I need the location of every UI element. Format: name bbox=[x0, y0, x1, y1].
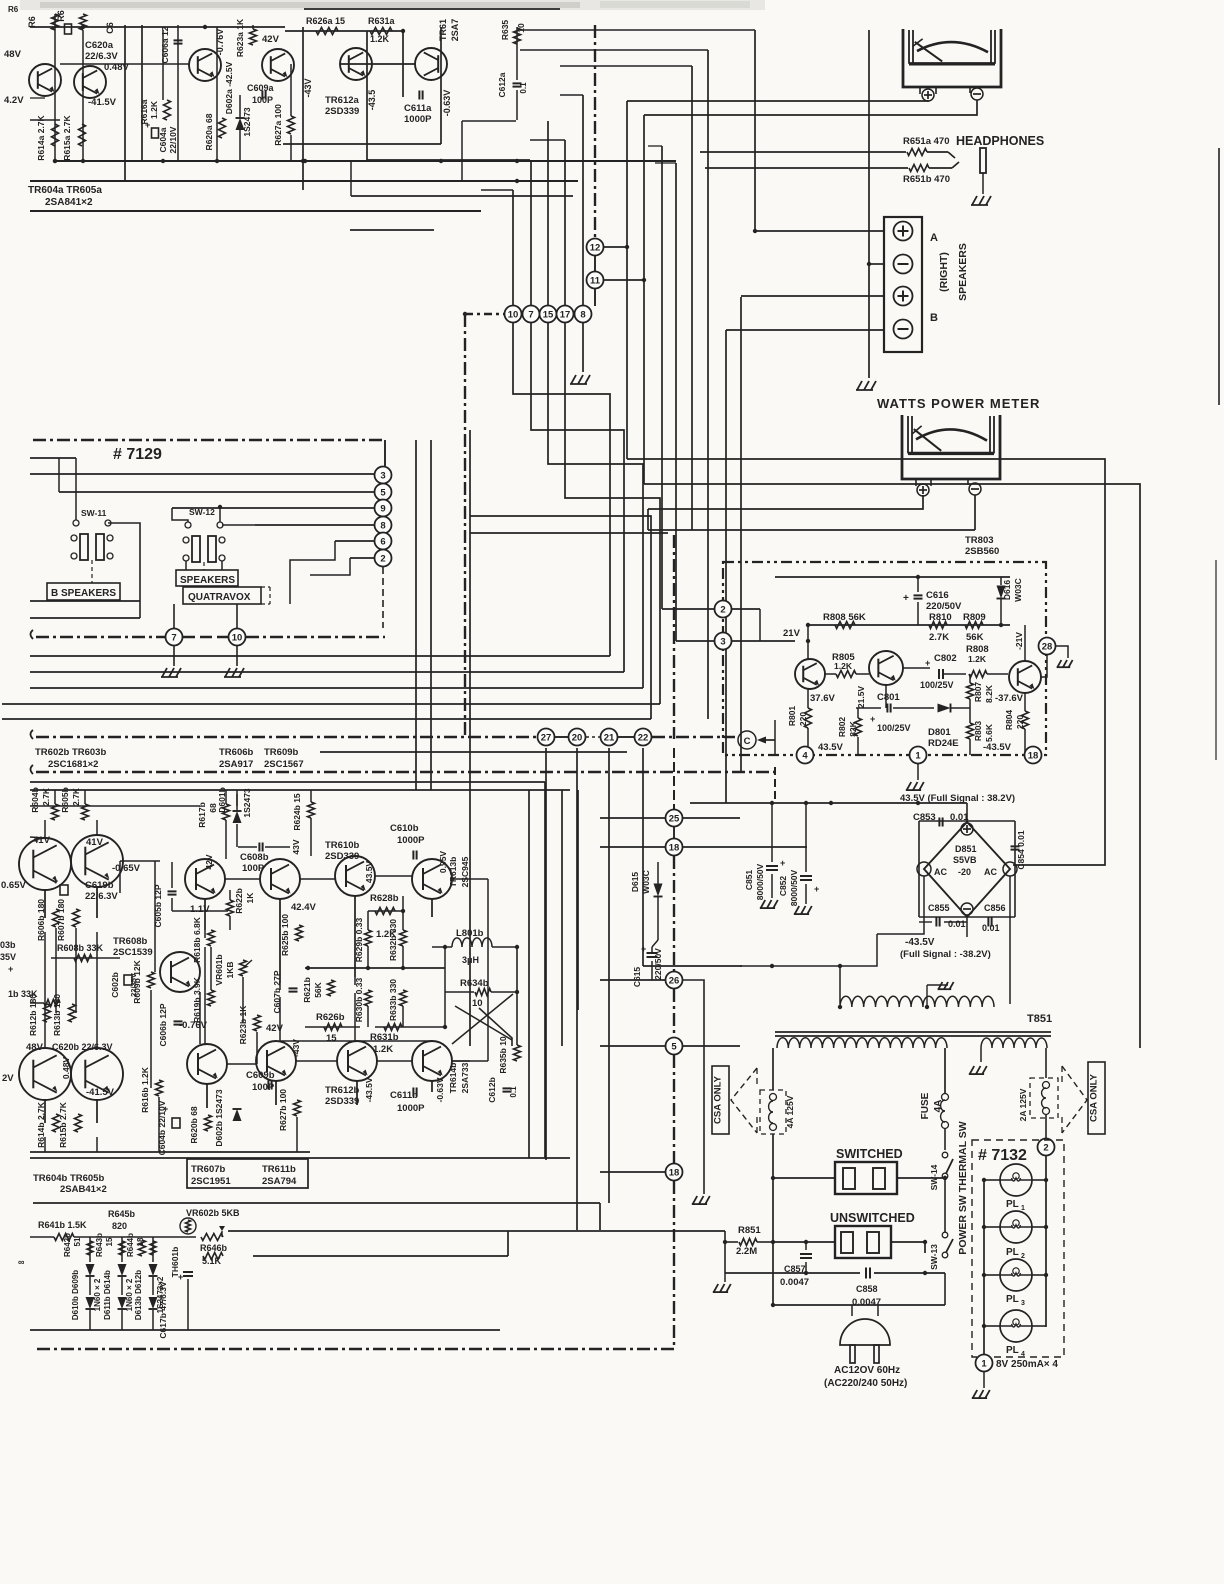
svg-text:C611a: C611a bbox=[404, 103, 432, 114]
svg-text:R620b 68: R620b 68 bbox=[189, 1106, 199, 1144]
svg-text:1S2473: 1S2473 bbox=[242, 788, 252, 818]
svg-text:C856: C856 bbox=[984, 903, 1006, 913]
svg-text:27: 27 bbox=[541, 732, 552, 743]
svg-text:W03C: W03C bbox=[641, 870, 651, 894]
svg-text:2: 2 bbox=[380, 553, 385, 564]
svg-text:43.5V: 43.5V bbox=[818, 742, 843, 753]
svg-text:2SD339: 2SD339 bbox=[325, 1096, 359, 1107]
svg-text:L801b: L801b bbox=[456, 928, 484, 939]
svg-text:22/10V: 22/10V bbox=[168, 126, 178, 153]
svg-text:R605b: R605b bbox=[60, 787, 70, 813]
svg-text:15: 15 bbox=[543, 309, 554, 320]
svg-text:0.1: 0.1 bbox=[519, 82, 528, 94]
svg-text:8000/50V: 8000/50V bbox=[755, 863, 765, 900]
svg-text:R609b 12K: R609b 12K bbox=[132, 959, 142, 1003]
svg-text:1.1V: 1.1V bbox=[190, 904, 210, 915]
svg-text:+: + bbox=[163, 1104, 168, 1114]
svg-text:C801: C801 bbox=[877, 692, 900, 703]
svg-text:PL: PL bbox=[1006, 1345, 1019, 1356]
svg-text:+: + bbox=[903, 593, 909, 604]
svg-text:+: + bbox=[814, 884, 819, 894]
svg-text:B: B bbox=[930, 312, 938, 324]
svg-text:+: + bbox=[641, 944, 646, 954]
svg-text:R612b 180: R612b 180 bbox=[28, 994, 38, 1036]
svg-text:TR609b: TR609b bbox=[264, 747, 299, 758]
svg-text:C609a: C609a bbox=[247, 83, 275, 93]
svg-text:C620b 22/6.3V: C620b 22/6.3V bbox=[52, 1042, 113, 1052]
svg-text:C612a: C612a bbox=[497, 72, 507, 97]
svg-text:PL: PL bbox=[1006, 1294, 1019, 1305]
svg-text:R804: R804 bbox=[1004, 710, 1014, 731]
svg-text:W03C: W03C bbox=[1013, 578, 1023, 602]
svg-text:1.2K: 1.2K bbox=[370, 34, 390, 44]
svg-text:8: 8 bbox=[380, 520, 385, 531]
svg-text:2.7K: 2.7K bbox=[929, 632, 949, 643]
svg-text:-43.5: -43.5 bbox=[367, 90, 377, 111]
svg-text:-21V: -21V bbox=[1014, 632, 1024, 650]
svg-text:R6: R6 bbox=[27, 16, 37, 28]
svg-text:B SPEAKERS: B SPEAKERS bbox=[51, 588, 116, 599]
svg-text:R626b: R626b bbox=[316, 1012, 345, 1023]
svg-text:D616: D616 bbox=[1002, 580, 1012, 601]
svg-text:C615: C615 bbox=[632, 967, 642, 988]
svg-text:SW-12: SW-12 bbox=[189, 507, 215, 517]
svg-text:C: C bbox=[744, 736, 751, 747]
svg-text:0.65V: 0.65V bbox=[1, 880, 26, 891]
svg-text:1S2473×2: 1S2473×2 bbox=[156, 1276, 165, 1313]
svg-text:+: + bbox=[178, 1272, 183, 1282]
svg-text:(AC220/240 50Hz): (AC220/240 50Hz) bbox=[824, 1378, 907, 1389]
svg-text:220: 220 bbox=[798, 712, 808, 726]
svg-text:C852: C852 bbox=[778, 876, 788, 897]
svg-text:0.0047: 0.0047 bbox=[780, 1277, 809, 1288]
svg-text:R851: R851 bbox=[738, 1225, 761, 1236]
svg-text:-20: -20 bbox=[958, 867, 971, 877]
svg-text:TR612b: TR612b bbox=[325, 1085, 360, 1096]
svg-text:4A 125V: 4A 125V bbox=[785, 1095, 795, 1128]
svg-text:D801: D801 bbox=[928, 727, 951, 738]
svg-text:C854 0.01: C854 0.01 bbox=[1016, 830, 1026, 869]
svg-text:C604a: C604a bbox=[158, 127, 168, 152]
svg-text:UNSWITCHED: UNSWITCHED bbox=[830, 1211, 915, 1225]
svg-text:+: + bbox=[780, 858, 785, 868]
svg-text:2SD339: 2SD339 bbox=[325, 851, 359, 862]
svg-text:POWER SW THERMAL SW: POWER SW THERMAL SW bbox=[957, 1121, 969, 1254]
svg-text:R641b 1.5K: R641b 1.5K bbox=[38, 1220, 87, 1230]
svg-text:8000/50V: 8000/50V bbox=[789, 869, 799, 906]
svg-text:+: + bbox=[145, 120, 150, 130]
svg-text:R622b: R622b bbox=[234, 888, 244, 914]
svg-text:-41.5V: -41.5V bbox=[86, 1087, 115, 1098]
svg-text:42V: 42V bbox=[204, 854, 214, 869]
svg-text:C853: C853 bbox=[913, 812, 936, 823]
svg-text:TR613b: TR613b bbox=[448, 857, 458, 888]
svg-text:D613b D612b: D613b D612b bbox=[134, 1270, 143, 1320]
svg-text:4: 4 bbox=[802, 750, 808, 761]
svg-text:43.5V: 43.5V bbox=[364, 861, 374, 884]
svg-text:SWITCHED: SWITCHED bbox=[836, 1147, 903, 1161]
svg-text:43V: 43V bbox=[291, 839, 301, 854]
svg-text:R607b 180: R607b 180 bbox=[56, 899, 66, 941]
svg-text:2SA917: 2SA917 bbox=[219, 759, 253, 770]
svg-text:TR610b: TR610b bbox=[325, 840, 360, 851]
svg-text:12: 12 bbox=[590, 242, 601, 253]
svg-text:2SC1951: 2SC1951 bbox=[191, 1176, 231, 1187]
svg-text:R6: R6 bbox=[56, 10, 66, 22]
svg-text:82K: 82K bbox=[848, 720, 858, 736]
svg-text:C851: C851 bbox=[744, 870, 754, 891]
svg-text:1S2473: 1S2473 bbox=[242, 107, 252, 137]
svg-text:1000P: 1000P bbox=[404, 114, 432, 125]
svg-text:AC12OV 60Hz: AC12OV 60Hz bbox=[834, 1365, 900, 1376]
svg-text:1: 1 bbox=[1021, 1205, 1025, 1212]
svg-text:0.1: 0.1 bbox=[509, 1086, 518, 1098]
svg-text:2A 125V: 2A 125V bbox=[1018, 1088, 1028, 1121]
svg-text:2SA7: 2SA7 bbox=[450, 19, 460, 42]
svg-text:9: 9 bbox=[380, 503, 385, 514]
svg-text:WATTS POWER METER: WATTS POWER METER bbox=[877, 396, 1040, 411]
svg-text:R644b: R644b bbox=[126, 1233, 135, 1257]
svg-text:42.4V: 42.4V bbox=[291, 902, 316, 913]
svg-text:R625b 100: R625b 100 bbox=[280, 914, 290, 956]
svg-text:R808 56K: R808 56K bbox=[823, 612, 866, 623]
svg-text:2SB560: 2SB560 bbox=[965, 546, 999, 557]
svg-text:TR602b TR603b: TR602b TR603b bbox=[35, 747, 106, 758]
svg-text:1K: 1K bbox=[245, 892, 255, 904]
svg-text:100P: 100P bbox=[242, 863, 265, 874]
svg-text:37.6V: 37.6V bbox=[810, 693, 835, 704]
svg-text:TR61: TR61 bbox=[438, 19, 448, 41]
svg-text:TR614b: TR614b bbox=[448, 1063, 458, 1094]
svg-text:C606a 12: C606a 12 bbox=[160, 26, 170, 63]
svg-text:C609b: C609b bbox=[246, 1070, 275, 1081]
svg-text:21V: 21V bbox=[783, 628, 801, 639]
svg-text:R801: R801 bbox=[787, 706, 797, 727]
svg-text:2SAB41×2: 2SAB41×2 bbox=[60, 1184, 107, 1195]
svg-text:R615a 2.7K: R615a 2.7K bbox=[62, 114, 72, 160]
svg-text:R614a 2.7K: R614a 2.7K bbox=[36, 114, 46, 160]
svg-text:TR604a TR605a: TR604a TR605a bbox=[28, 185, 102, 196]
svg-text:TR803: TR803 bbox=[965, 535, 994, 546]
svg-text:48V: 48V bbox=[4, 49, 22, 60]
svg-text:RD24E: RD24E bbox=[928, 738, 959, 749]
svg-text:3: 3 bbox=[1021, 1300, 1025, 1307]
svg-text:+: + bbox=[925, 658, 930, 668]
svg-text:2.2M: 2.2M bbox=[736, 1246, 757, 1257]
svg-text:10: 10 bbox=[472, 998, 483, 1009]
svg-text:R635b 10: R635b 10 bbox=[498, 1036, 508, 1074]
svg-text:5: 5 bbox=[380, 487, 386, 498]
svg-text:3: 3 bbox=[720, 636, 725, 647]
svg-text:2SC1681×2: 2SC1681×2 bbox=[48, 759, 98, 770]
svg-text:-43.5V: -43.5V bbox=[905, 937, 935, 948]
svg-text:+: + bbox=[53, 876, 58, 886]
svg-text:1: 1 bbox=[981, 1358, 987, 1369]
svg-text:R627a 100: R627a 100 bbox=[273, 104, 283, 146]
svg-text:A: A bbox=[930, 232, 938, 244]
svg-text:C6: C6 bbox=[105, 22, 115, 34]
svg-text:0.01: 0.01 bbox=[982, 923, 1000, 933]
svg-text:28: 28 bbox=[1042, 641, 1053, 652]
svg-text:42V: 42V bbox=[262, 34, 280, 45]
svg-text:D611b D614b: D611b D614b bbox=[103, 1270, 112, 1320]
svg-text:C612b: C612b bbox=[487, 1077, 497, 1103]
svg-text:0.0047: 0.0047 bbox=[852, 1297, 881, 1308]
svg-text:1000P: 1000P bbox=[397, 1103, 425, 1114]
svg-text:FUSE: FUSE bbox=[920, 1092, 931, 1119]
svg-text:22: 22 bbox=[638, 732, 649, 743]
svg-text:3: 3 bbox=[380, 470, 385, 481]
svg-text:48V: 48V bbox=[26, 1042, 44, 1053]
svg-text:R604b: R604b bbox=[30, 787, 40, 813]
svg-text:R613b 180: R613b 180 bbox=[52, 994, 62, 1036]
svg-text:R643b: R643b bbox=[95, 1233, 104, 1257]
svg-text:SW-13: SW-13 bbox=[929, 1244, 939, 1270]
svg-text:220: 220 bbox=[1015, 715, 1025, 729]
svg-text:TR612a: TR612a bbox=[325, 95, 360, 106]
svg-text:R810: R810 bbox=[929, 612, 952, 623]
svg-text:T851: T851 bbox=[1027, 1013, 1052, 1025]
svg-text:51: 51 bbox=[73, 1237, 82, 1246]
svg-text:220/50V: 220/50V bbox=[653, 948, 663, 980]
svg-text:D615: D615 bbox=[630, 872, 640, 893]
svg-text:+: + bbox=[870, 714, 875, 724]
svg-text:∞: ∞ bbox=[18, 1257, 25, 1267]
svg-text:2SA733: 2SA733 bbox=[460, 1062, 470, 1093]
svg-text:7: 7 bbox=[171, 632, 176, 643]
svg-text:R802: R802 bbox=[837, 717, 847, 738]
svg-text:41V: 41V bbox=[33, 835, 51, 846]
svg-text:-41.5V: -41.5V bbox=[88, 97, 117, 108]
svg-text:1.2K: 1.2K bbox=[149, 100, 159, 119]
svg-text:TR607b: TR607b bbox=[191, 1164, 226, 1175]
svg-text:TR611b: TR611b bbox=[262, 1164, 296, 1175]
svg-text:PL: PL bbox=[1006, 1199, 1019, 1210]
svg-text:R623a 1K: R623a 1K bbox=[235, 18, 245, 57]
svg-text:18: 18 bbox=[1028, 750, 1039, 761]
svg-text:17: 17 bbox=[560, 309, 571, 320]
svg-text:R620a 68: R620a 68 bbox=[204, 113, 214, 150]
svg-text:R635: R635 bbox=[500, 20, 510, 41]
svg-text:2SC1539: 2SC1539 bbox=[113, 947, 153, 958]
svg-text:2SA794: 2SA794 bbox=[262, 1176, 297, 1187]
svg-text:C620a: C620a bbox=[85, 40, 114, 51]
svg-text:R631a: R631a bbox=[368, 16, 396, 26]
svg-text:1KB: 1KB bbox=[225, 961, 235, 978]
svg-text:8.2K: 8.2K bbox=[984, 684, 994, 703]
svg-text:C619b: C619b bbox=[85, 880, 114, 891]
svg-text:C602b: C602b bbox=[110, 972, 120, 998]
svg-text:-0.65V: -0.65V bbox=[112, 863, 141, 874]
svg-text:# 7132: # 7132 bbox=[978, 1147, 1027, 1164]
svg-text:5: 5 bbox=[671, 1041, 677, 1052]
svg-text:18: 18 bbox=[136, 1237, 145, 1246]
svg-text:100/25V: 100/25V bbox=[920, 680, 954, 690]
svg-text:# 7129: # 7129 bbox=[113, 446, 162, 463]
svg-text:R803: R803 bbox=[973, 721, 983, 742]
svg-text:8: 8 bbox=[580, 309, 585, 320]
svg-text:1: 1 bbox=[915, 750, 921, 761]
svg-text:18: 18 bbox=[669, 1167, 680, 1178]
svg-text:AC: AC bbox=[984, 867, 997, 877]
svg-text:-0.63V: -0.63V bbox=[435, 1077, 445, 1102]
svg-text:(Full Signal : -38.2V): (Full Signal : -38.2V) bbox=[900, 949, 991, 960]
svg-text:2SA841×2: 2SA841×2 bbox=[45, 197, 93, 208]
svg-text:C858: C858 bbox=[856, 1284, 878, 1294]
svg-text:VR601b: VR601b bbox=[214, 954, 224, 985]
svg-text:25: 25 bbox=[669, 813, 680, 824]
svg-text:2: 2 bbox=[1043, 1142, 1048, 1153]
svg-text:15: 15 bbox=[105, 1237, 114, 1246]
svg-text:10: 10 bbox=[232, 632, 243, 643]
svg-text:4.2V: 4.2V bbox=[4, 95, 24, 106]
svg-text:03b: 03b bbox=[0, 940, 16, 950]
svg-text:D610b D609b: D610b D609b bbox=[71, 1270, 80, 1320]
svg-text:-0.63V: -0.63V bbox=[442, 90, 452, 117]
svg-text:-43.5V: -43.5V bbox=[364, 1077, 374, 1102]
svg-text:-43V: -43V bbox=[303, 78, 313, 97]
svg-text:C608b: C608b bbox=[240, 852, 269, 863]
svg-text:7: 7 bbox=[528, 309, 533, 320]
svg-text:D851: D851 bbox=[955, 844, 977, 854]
svg-text:CSA ONLY: CSA ONLY bbox=[713, 1075, 724, 1124]
svg-text:100/25V: 100/25V bbox=[877, 723, 911, 733]
svg-text:35V: 35V bbox=[0, 952, 16, 962]
svg-text:TR608b: TR608b bbox=[113, 936, 148, 947]
svg-text:0.01: 0.01 bbox=[948, 919, 966, 929]
svg-text:2SC945: 2SC945 bbox=[460, 856, 470, 887]
svg-text:R632b 330: R632b 330 bbox=[388, 919, 398, 961]
svg-text:1.2K: 1.2K bbox=[968, 654, 987, 664]
svg-text:R628b: R628b bbox=[370, 893, 399, 904]
svg-text:R615b 2.7K: R615b 2.7K bbox=[58, 1101, 68, 1148]
svg-text:R646b: R646b bbox=[200, 1243, 228, 1253]
svg-text:26: 26 bbox=[669, 975, 680, 986]
svg-text:8V 250mA× 4: 8V 250mA× 4 bbox=[996, 1359, 1058, 1370]
svg-text:R807: R807 bbox=[973, 682, 983, 703]
svg-text:41V: 41V bbox=[86, 837, 104, 848]
svg-text:4: 4 bbox=[1021, 1351, 1025, 1358]
svg-text:15: 15 bbox=[326, 1033, 337, 1044]
svg-text:6: 6 bbox=[380, 536, 385, 547]
svg-text:18: 18 bbox=[669, 842, 680, 853]
svg-text:R624b 15: R624b 15 bbox=[292, 793, 302, 831]
svg-text:0.95V: 0.95V bbox=[438, 851, 448, 874]
svg-text:2: 2 bbox=[1021, 1253, 1025, 1260]
svg-text:220/50V: 220/50V bbox=[926, 601, 962, 612]
svg-text:2V: 2V bbox=[2, 1073, 14, 1084]
svg-text:1.2K: 1.2K bbox=[373, 1044, 393, 1055]
svg-text:C610b: C610b bbox=[390, 823, 419, 834]
svg-text:C802: C802 bbox=[934, 653, 957, 664]
svg-text:R633b 330: R633b 330 bbox=[388, 979, 398, 1021]
svg-text:CSA ONLY: CSA ONLY bbox=[1089, 1073, 1100, 1122]
svg-text:3μH: 3μH bbox=[462, 955, 479, 965]
svg-text:42V: 42V bbox=[266, 1023, 284, 1034]
svg-text:R645b: R645b bbox=[108, 1209, 136, 1219]
svg-text:820: 820 bbox=[112, 1221, 127, 1231]
svg-text:C855: C855 bbox=[928, 903, 950, 913]
svg-text:-43.5V: -43.5V bbox=[983, 742, 1012, 753]
svg-text:R651b 470: R651b 470 bbox=[903, 174, 950, 185]
svg-text:R616b 1.2K: R616b 1.2K bbox=[140, 1066, 150, 1113]
svg-text:1N60 × 2: 1N60 × 2 bbox=[93, 1278, 102, 1311]
svg-text:11: 11 bbox=[590, 275, 601, 286]
svg-text:R651a 470: R651a 470 bbox=[903, 136, 949, 147]
svg-text:21.5V: 21.5V bbox=[856, 686, 866, 709]
svg-text:+: + bbox=[8, 964, 13, 974]
svg-text:10: 10 bbox=[508, 309, 519, 320]
svg-text:C606b 12P: C606b 12P bbox=[158, 1003, 168, 1046]
svg-text:VR602b 5KB: VR602b 5KB bbox=[186, 1208, 240, 1218]
svg-text:R618b 6.8K: R618b 6.8K bbox=[192, 916, 202, 963]
svg-text:SPEAKERS: SPEAKERS bbox=[957, 243, 969, 301]
svg-text:20: 20 bbox=[572, 732, 583, 743]
svg-text:22/6.3V: 22/6.3V bbox=[85, 891, 118, 902]
svg-text:2: 2 bbox=[720, 604, 725, 615]
svg-text:56K: 56K bbox=[966, 632, 984, 643]
svg-text:PL: PL bbox=[1006, 1247, 1019, 1258]
svg-text:SW-11: SW-11 bbox=[81, 508, 107, 518]
svg-text:5.6K: 5.6K bbox=[984, 723, 994, 742]
svg-text:R626a 15: R626a 15 bbox=[306, 16, 345, 26]
svg-text:2SC1567: 2SC1567 bbox=[264, 759, 304, 770]
svg-text:D602a -42.5V: D602a -42.5V bbox=[224, 61, 234, 114]
svg-text:AC: AC bbox=[934, 867, 947, 877]
svg-text:R642b: R642b bbox=[63, 1233, 72, 1257]
svg-text:2SD339: 2SD339 bbox=[325, 106, 359, 117]
svg-text:HEADPHONES: HEADPHONES bbox=[956, 134, 1044, 148]
svg-text:56K: 56K bbox=[313, 981, 323, 997]
svg-text:1000P: 1000P bbox=[397, 835, 425, 846]
svg-text:R6: R6 bbox=[8, 5, 19, 14]
svg-text:22/6.3V: 22/6.3V bbox=[85, 51, 118, 62]
svg-text:R621b: R621b bbox=[302, 977, 312, 1003]
svg-text:21: 21 bbox=[604, 732, 615, 743]
svg-text:0.48V: 0.48V bbox=[61, 1057, 71, 1080]
svg-text:1N60 × 2: 1N60 × 2 bbox=[125, 1278, 134, 1311]
svg-text:TR606b: TR606b bbox=[219, 747, 254, 758]
svg-text:-37.6V: -37.6V bbox=[995, 693, 1024, 704]
svg-text:TR604b TR605b: TR604b TR605b bbox=[33, 1173, 104, 1184]
svg-text:QUATRAVOX: QUATRAVOX bbox=[188, 592, 251, 603]
svg-text:1.2K: 1.2K bbox=[834, 661, 853, 671]
svg-text:S5VB: S5VB bbox=[953, 855, 977, 865]
svg-text:SPEAKERS: SPEAKERS bbox=[180, 575, 235, 586]
svg-text:R809: R809 bbox=[963, 612, 986, 623]
svg-text:(RIGHT): (RIGHT) bbox=[938, 252, 950, 292]
svg-text:R627b 100: R627b 100 bbox=[278, 1089, 288, 1131]
svg-text:C616: C616 bbox=[926, 590, 949, 601]
svg-text:D602b 1S2473: D602b 1S2473 bbox=[214, 1089, 224, 1146]
